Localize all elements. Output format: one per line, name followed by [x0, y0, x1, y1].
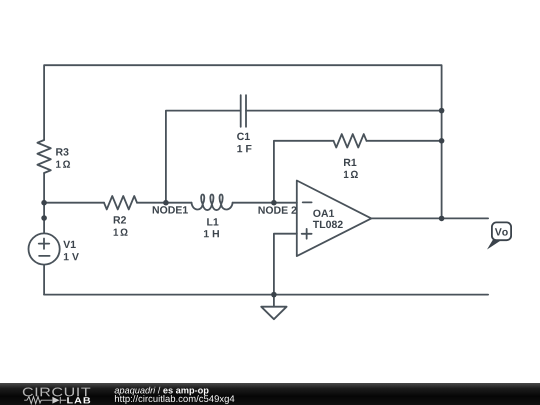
resistor R1	[334, 134, 367, 147]
wire L1 to op-amp	[233, 202, 297, 204]
label C1	[237, 133, 250, 140]
label R1 value	[344, 171, 358, 178]
node dot NODE1	[163, 200, 169, 206]
node dot A	[41, 200, 47, 206]
wire main horizontal left	[44, 202, 104, 204]
footer bar	[0, 383, 540, 405]
wire op-amp output	[371, 217, 488, 219]
node dot ground	[271, 292, 277, 298]
node dot output	[439, 216, 445, 222]
wire V1 bottom	[43, 265, 45, 295]
wire V1 top	[43, 203, 45, 233]
label R3	[56, 148, 68, 155]
node dot R1/right rail	[439, 138, 445, 144]
label OA1 part	[313, 221, 343, 228]
op-amp plus marker	[302, 233, 312, 235]
output flag Vo text	[495, 228, 508, 235]
wire C1 right	[246, 110, 442, 112]
label L1 value	[204, 230, 219, 237]
label V1 value	[64, 253, 79, 260]
footer credit	[115, 387, 209, 396]
V1 minus sign	[39, 255, 50, 257]
wire R2 to L1	[137, 202, 192, 204]
node NODE 2 label	[259, 206, 297, 213]
op-amp U1 triangle	[297, 181, 372, 257]
wire R1 right	[367, 140, 442, 142]
voltage source V1 circle	[28, 233, 59, 264]
V1 plus sign	[39, 243, 49, 245]
wire C1 branch	[166, 111, 241, 203]
resistor R3	[37, 140, 50, 173]
output flag Vo box	[492, 222, 511, 240]
label V1	[63, 241, 75, 248]
logo diode	[52, 397, 59, 404]
label OA1	[313, 210, 334, 217]
ground stub	[273, 295, 275, 307]
op-amp minus marker	[303, 201, 312, 203]
node NODE1 label	[153, 206, 188, 213]
label R2 value	[114, 228, 128, 235]
inductor L1	[192, 195, 233, 211]
wire bottom rail	[44, 294, 488, 296]
label R3 value	[56, 160, 70, 167]
label C1 value	[237, 145, 251, 152]
capacitor C1 plate right	[245, 95, 247, 127]
ground triangle	[261, 307, 286, 320]
resistor R2	[104, 196, 137, 209]
footer url	[115, 395, 234, 404]
label R2	[114, 216, 126, 223]
logo waveform	[24, 397, 66, 404]
output flag Vo tail	[487, 240, 502, 250]
node dot NODE2	[271, 200, 277, 206]
label R1	[344, 159, 356, 166]
node dot V1 terminal	[41, 215, 47, 221]
logo CIRCUIT	[23, 388, 90, 397]
wire R1 branch	[274, 141, 334, 203]
node dot C1/right rail	[439, 108, 445, 114]
capacitor C1 plate left	[240, 95, 242, 127]
wire top rail	[44, 65, 442, 218]
logo LAB	[67, 397, 90, 403]
label L1	[207, 218, 218, 225]
wire left rail lower	[43, 173, 45, 203]
wire plus input	[274, 234, 297, 295]
